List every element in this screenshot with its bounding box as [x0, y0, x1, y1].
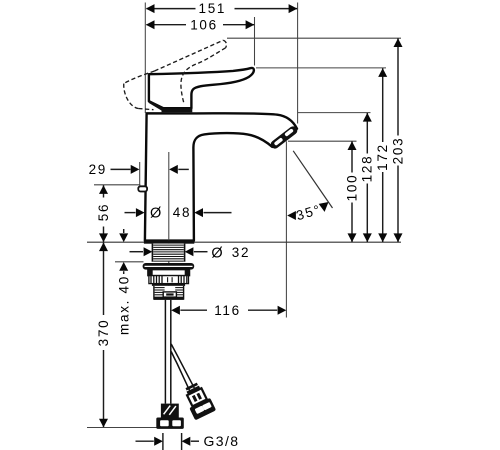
svg-text:max. 40: max. 40: [116, 275, 131, 335]
svg-text:151: 151: [198, 1, 226, 16]
svg-text:203: 203: [390, 137, 405, 165]
svg-text:32: 32: [232, 245, 250, 260]
svg-text:48: 48: [173, 205, 191, 220]
svg-text:G3/8: G3/8: [204, 433, 240, 449]
svg-text:172: 172: [375, 143, 390, 171]
svg-text:116: 116: [214, 303, 241, 318]
svg-text:Ø: Ø: [150, 205, 161, 221]
svg-text:29: 29: [89, 162, 107, 177]
svg-text:128: 128: [360, 155, 375, 183]
svg-text:370: 370: [96, 319, 111, 347]
svg-text:56: 56: [96, 203, 111, 221]
svg-text:100: 100: [344, 174, 359, 202]
svg-text:Ø: Ø: [211, 246, 222, 262]
svg-text:106: 106: [190, 17, 218, 32]
